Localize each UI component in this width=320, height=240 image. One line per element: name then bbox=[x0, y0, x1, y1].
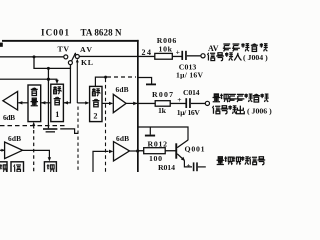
svg-text:( J004 ): ( J004 ) bbox=[243, 53, 268, 62]
wire R012 to Q001 base bbox=[165, 150, 175, 151]
wire C014 to terminal bbox=[191, 103, 206, 104]
svg-text:TV: TV bbox=[58, 44, 70, 53]
label monitor left channel audio output J006 bbox=[212, 94, 272, 116]
block mute2 静音2 bbox=[90, 86, 102, 121]
capacitor C014 bbox=[185, 98, 187, 108]
ground bar bbox=[146, 84, 156, 86]
wire dashed volume control vertical bbox=[33, 130, 35, 172]
terminal J004 bbox=[201, 54, 205, 58]
svg-text:R012: R012 bbox=[148, 140, 168, 149]
svg-text:6dB: 6dB bbox=[116, 134, 129, 143]
svg-text:KL: KL bbox=[81, 58, 93, 67]
wire common feed into mute1 right with left arrow bbox=[64, 102, 71, 103]
wire dashed control bus horizontal left bbox=[0, 125, 66, 127]
label AV left channel audio input J004 bbox=[207, 43, 268, 62]
amplifier 6dB left (row1) bbox=[3, 91, 18, 110]
wire capacitor to label bbox=[198, 166, 206, 167]
terminal J006 bbox=[205, 101, 209, 105]
switch KL common pole bbox=[68, 61, 72, 65]
svg-text:10k: 10k bbox=[159, 45, 173, 54]
switch KL wiper arm bbox=[72, 53, 76, 61]
svg-text:1k: 1k bbox=[158, 106, 167, 115]
block blanking 混 (cut) bbox=[44, 162, 56, 174]
wire C013 to terminal bbox=[187, 55, 201, 56]
resistor R007 bbox=[155, 101, 170, 107]
svg-text:R006: R006 bbox=[157, 36, 177, 45]
wire AV contact to pin 24 bbox=[79, 56, 138, 57]
switch KL contact TV bbox=[64, 55, 68, 59]
svg-text:24: 24 bbox=[142, 48, 152, 57]
svg-text:( J006 ): ( J006 ) bbox=[247, 106, 272, 115]
wire pin to R012 bbox=[139, 150, 145, 151]
wire step down from TV wire bbox=[34, 57, 70, 69]
amplifier 6dB bottom-right (row2) bbox=[114, 142, 130, 161]
node dot control bbox=[104, 76, 107, 79]
svg-text:6dB: 6dB bbox=[8, 134, 21, 143]
resistor R006 bbox=[155, 53, 173, 59]
wire dashed mute2 rail vertical bbox=[105, 79, 107, 173]
block at left edge (cut) bbox=[0, 162, 7, 174]
wire AV arrow up under AV contact bbox=[76, 60, 78, 103]
wire AV branch into mute2 with right arrow bbox=[77, 102, 86, 103]
wire pin ground stub outside border bbox=[138, 78, 152, 84]
amplifier 6dB bottom-left (row2) bbox=[5, 142, 23, 159]
svg-text:2: 2 bbox=[93, 111, 97, 120]
wire collector up and left to border bbox=[139, 127, 189, 140]
wire amp out to blanking box bbox=[23, 150, 50, 158]
block volume 音量 bbox=[28, 85, 41, 122]
node dot at border bbox=[136, 149, 139, 152]
block mute1 静音1 bbox=[51, 84, 64, 121]
IC001 right border bbox=[137, 40, 139, 172]
svg-text:AV: AV bbox=[208, 44, 219, 53]
wire dashed AV rail vertical bbox=[77, 107, 79, 173]
ground under drop bbox=[43, 128, 57, 130]
svg-text:AV: AV bbox=[80, 45, 92, 54]
capacitor (monitor video out) bbox=[193, 162, 195, 171]
resistor R007 wire in bbox=[139, 103, 156, 104]
svg-text:TA 8628 N: TA 8628 N bbox=[81, 28, 123, 38]
wire TV input from left edge bbox=[0, 56, 64, 57]
svg-text:1μ/ 16V: 1μ/ 16V bbox=[177, 108, 201, 117]
capacitor C013 bbox=[181, 51, 183, 60]
wire mute1 to volume with left arrow bbox=[41, 102, 51, 103]
node junction dot on TV wire bbox=[33, 55, 36, 58]
svg-text:+: + bbox=[187, 162, 191, 170]
wire step from mute1 area to AV dashed rail bbox=[60, 129, 78, 134]
switch KL contact AV bbox=[75, 55, 79, 59]
wire drop from wire B to line C and ground bbox=[48, 68, 49, 128]
node line C horizontal bbox=[0, 79, 57, 80]
IC U001 label IC001 TA8628N bbox=[41, 28, 122, 38]
wire R007 to C014 bbox=[170, 103, 186, 104]
wire mute2 out to amp with right arrow bbox=[102, 103, 110, 104]
svg-text:R014: R014 bbox=[158, 163, 175, 172]
wire arrow down into mute1 top bbox=[56, 79, 58, 80]
block clamp 钳 (cut) bbox=[11, 162, 24, 174]
ground on collector rail bbox=[149, 127, 151, 135]
svg-text:1μ/ 16V: 1μ/ 16V bbox=[176, 70, 204, 79]
transistor Q001 bbox=[175, 143, 177, 158]
svg-text:C014: C014 bbox=[183, 88, 200, 97]
cut glyph at left edge bbox=[0, 43, 3, 47]
label monitor video signal bbox=[217, 156, 266, 164]
wire volume to amp with left arrow bbox=[18, 102, 28, 103]
wire amp out to pin bbox=[130, 150, 139, 151]
wire common vertical down bbox=[70, 68, 71, 103]
svg-text:6dB: 6dB bbox=[116, 85, 129, 94]
wire volume control arrow up bbox=[33, 124, 35, 129]
svg-text:6dB: 6dB bbox=[3, 113, 15, 122]
wire input from left edge with right arrow bbox=[0, 150, 5, 151]
amplifier 6dB mid right (row1) bbox=[113, 94, 126, 112]
switch common stem to wire B bbox=[70, 64, 71, 68]
node blob at line C junction bbox=[47, 78, 50, 81]
wire R006 to C013 bbox=[172, 56, 182, 57]
node junction dot wire B bbox=[47, 67, 50, 70]
wire feed from bottom into amp with right arrow bbox=[93, 151, 109, 172]
IC001 top border bbox=[2, 40, 139, 42]
svg-text:+: + bbox=[177, 95, 181, 104]
wire amp out to pin with right arrow bbox=[126, 103, 137, 104]
svg-text:IC001: IC001 bbox=[41, 28, 70, 38]
svg-text:+: + bbox=[176, 48, 180, 57]
resistor R006 wire in bbox=[139, 56, 156, 57]
svg-text:1: 1 bbox=[55, 110, 59, 119]
svg-text:100: 100 bbox=[149, 154, 162, 163]
wire mute2 control to top bbox=[95, 77, 105, 86]
wire dashed control to border bbox=[107, 76, 136, 78]
svg-text:Q001: Q001 bbox=[185, 145, 205, 154]
svg-text:R007: R007 bbox=[152, 90, 173, 99]
wire emitter down to output bbox=[184, 160, 192, 167]
resistor R012 bbox=[144, 148, 166, 154]
